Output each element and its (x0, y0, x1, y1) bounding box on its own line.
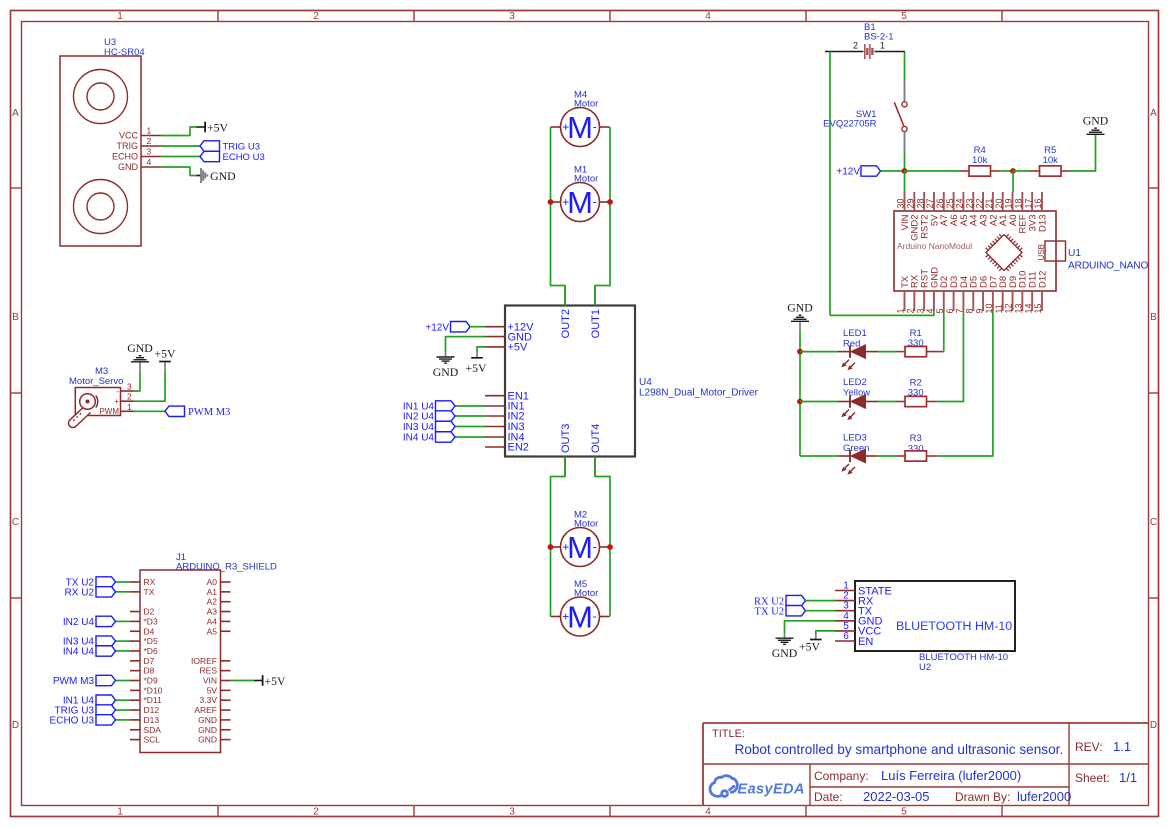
pin 2 M3 (114, 392, 133, 406)
svg-text:ECHO U3: ECHO U3 (50, 715, 95, 726)
wire (878, 455, 897, 457)
svg-text:Date:: Date: (814, 790, 843, 804)
title text (712, 728, 1063, 757)
pin IN1 U4 (485, 401, 525, 413)
wire (785, 621, 836, 633)
svg-text:A3: A3 (207, 607, 218, 617)
svg-text:19: 19 (1004, 198, 1014, 208)
pin 30 VIN U1 (896, 192, 911, 230)
label B1 BS-2-1 (864, 22, 894, 43)
pin 3 ECHO U3 (112, 147, 161, 162)
svg-text:R3: R3 (910, 433, 922, 444)
wire (905, 170, 960, 172)
net flag PWM M3 (53, 675, 116, 687)
power +5V (197, 120, 229, 134)
wire (134, 372, 166, 402)
wire (115, 640, 130, 642)
pin D7 J1 left (130, 656, 155, 666)
net flag IN3 U4 (63, 636, 116, 648)
pin RES J1 right (200, 666, 231, 676)
pin +12V U4 (485, 321, 534, 333)
svg-text:OUT3: OUT3 (560, 424, 572, 453)
svg-text:-: - (593, 120, 597, 134)
wire (115, 699, 130, 701)
net flag IN2 U4 (63, 616, 116, 628)
svg-text:5: 5 (901, 11, 907, 22)
svg-text:U4: U4 (639, 377, 652, 388)
wire (1012, 171, 1014, 192)
wire (800, 351, 838, 353)
pin 8 D5 U1 (964, 276, 979, 314)
pin SCL J1 left (130, 735, 160, 745)
pin D4 J1 left (130, 626, 155, 636)
svg-text:+: + (562, 120, 569, 134)
svg-text:+5V: +5V (465, 361, 487, 375)
svg-text:2: 2 (313, 11, 319, 22)
pin A5 J1 right (207, 626, 231, 636)
svg-text:IN4 U4: IN4 U4 (63, 646, 95, 657)
svg-text:+5V: +5V (508, 342, 529, 354)
svg-text:GND: GND (210, 169, 236, 183)
svg-text:M: M (567, 110, 593, 145)
svg-text:A1: A1 (207, 587, 218, 597)
led LED3 (838, 449, 878, 475)
svg-text:U1: U1 (1068, 248, 1081, 259)
svg-text:-: - (593, 540, 597, 554)
pin 6 D3 U1 (945, 276, 960, 314)
svg-text:D2: D2 (144, 607, 155, 617)
svg-text:EasyEDA: EasyEDA (738, 782, 805, 798)
svg-text:BS-2-1: BS-2-1 (864, 32, 894, 43)
label J1 ARDUINO_R3_SHIELD (176, 552, 277, 573)
power +5V (154, 347, 176, 372)
switch SW1 (894, 82, 907, 152)
label LED2 Yellow (843, 377, 870, 399)
svg-text:2022-03-05: 2022-03-05 (863, 789, 930, 804)
net flag IN1 U4 (403, 401, 455, 413)
svg-text:2: 2 (147, 136, 152, 146)
wire (830, 311, 934, 315)
pin *D6 J1 left (130, 646, 158, 656)
svg-text:BLUETOOTH HM-10: BLUETOOTH HM-10 (896, 619, 1012, 633)
svg-text:+: + (562, 610, 569, 624)
wire (161, 127, 197, 136)
label M3 Motor_Servo (69, 366, 123, 387)
ground (127, 341, 153, 372)
svg-text:1.1: 1.1 (1113, 739, 1131, 754)
svg-text:+5V: +5V (207, 120, 229, 134)
svg-text:Company:: Company: (814, 769, 869, 783)
svg-text:Sheet:: Sheet: (1075, 771, 1110, 785)
svg-text:12: 12 (1004, 303, 1014, 313)
pin 12 D9 U1 (1004, 276, 1019, 314)
net flag ECHO U3 (50, 715, 116, 727)
junction dot (607, 199, 613, 205)
svg-text:IOREF: IOREF (191, 656, 217, 666)
svg-text:8: 8 (964, 308, 974, 313)
svg-text:*D5: *D5 (144, 636, 158, 646)
svg-text:ECHO U3: ECHO U3 (223, 152, 265, 163)
svg-text:1/1: 1/1 (1119, 770, 1137, 785)
svg-text:6: 6 (945, 308, 955, 313)
svg-text:5V: 5V (207, 685, 218, 695)
svg-text:3: 3 (509, 11, 515, 22)
pin 4 GND U1 (925, 267, 940, 314)
svg-text:ARDUINO_NANO: ARDUINO_NANO (1068, 261, 1149, 272)
svg-text:30: 30 (896, 198, 906, 208)
svg-text:A5: A5 (207, 626, 218, 636)
svg-text:Luís Ferreira (lufer2000): Luís Ferreira (lufer2000) (881, 768, 1021, 783)
svg-text:M: M (567, 530, 593, 565)
wire (904, 171, 906, 192)
pin D13 J1 left (130, 715, 159, 725)
label U1 ARDUINO_NANO (1068, 248, 1149, 272)
wire (455, 415, 485, 417)
pin OUT4 U4 (590, 424, 602, 477)
svg-text:IN4 U4: IN4 U4 (403, 433, 435, 444)
svg-text:A0: A0 (207, 577, 218, 587)
pin *D5 J1 left (130, 636, 158, 646)
ground (787, 300, 813, 331)
svg-text:BLUETOOTH HM-10: BLUETOOTH HM-10 (919, 652, 1008, 663)
svg-text:D12: D12 (144, 705, 160, 715)
pin 4 GND U3 (118, 157, 161, 172)
svg-text:3: 3 (509, 806, 515, 817)
svg-text:+12V: +12V (836, 167, 860, 178)
net flag TX U2 (755, 606, 806, 618)
title block frame (703, 723, 1149, 806)
svg-text:GND: GND (433, 365, 459, 379)
svg-text:Motor_Servo: Motor_Servo (69, 376, 123, 387)
svg-text:TX U2: TX U2 (755, 606, 784, 617)
svg-text:11: 11 (994, 304, 1004, 313)
svg-text:lufer2000: lufer2000 (1017, 789, 1071, 804)
svg-text:Robot controlled by smartphone: Robot controlled by smartphone and ultra… (735, 742, 1064, 757)
svg-text:IN2 U4: IN2 U4 (63, 617, 95, 628)
pin RX J1 left (130, 577, 156, 587)
svg-text:M: M (567, 185, 593, 220)
svg-text:18: 18 (1014, 198, 1024, 208)
pin 22 A3 U1 (974, 192, 989, 226)
net flag ECHO U3 (200, 151, 265, 163)
resistor R4 (960, 166, 1000, 176)
svg-text:EN2: EN2 (508, 442, 529, 454)
pin +5V U4 (485, 342, 528, 354)
ground (1083, 113, 1109, 137)
power +5V (799, 634, 822, 654)
svg-text:23: 23 (964, 198, 974, 208)
wire (161, 156, 200, 158)
pin 21 A2 U1 (984, 192, 999, 226)
wire (115, 719, 130, 721)
wire (115, 680, 130, 682)
svg-text:PWM M3: PWM M3 (188, 407, 230, 418)
pin 15 D12 U1 (1033, 271, 1048, 314)
svg-text:B: B (12, 312, 19, 323)
resistor R3 (897, 451, 938, 461)
svg-text:26: 26 (935, 198, 945, 208)
svg-text:U2: U2 (919, 662, 931, 673)
svg-text:5: 5 (901, 806, 907, 817)
led LED2 (838, 395, 878, 421)
net flag TRIG U3 (55, 705, 116, 717)
wire (115, 581, 130, 583)
rev (1075, 739, 1131, 754)
pin 14 D11 U1 (1023, 271, 1038, 313)
pin 3.3V J1 right (200, 695, 231, 705)
svg-text:C: C (12, 517, 19, 528)
svg-text:6: 6 (843, 631, 849, 642)
svg-text:17: 17 (1023, 198, 1033, 208)
wire (806, 610, 836, 612)
pin 1 STATE U2 (835, 581, 892, 598)
svg-text:4: 4 (705, 11, 711, 22)
svg-text:4: 4 (147, 157, 152, 167)
wire (134, 410, 166, 412)
svg-text:+: + (562, 540, 569, 554)
battery B1 (825, 41, 905, 60)
wire (937, 311, 993, 456)
svg-text:GND: GND (198, 715, 217, 725)
label M2 Motor (574, 510, 598, 530)
pin 6 EN U2 (835, 631, 873, 648)
pin 27 5V U1 (925, 192, 940, 226)
svg-text:C: C (1150, 517, 1157, 528)
svg-text:GND: GND (198, 725, 217, 735)
svg-text:3: 3 (127, 382, 132, 392)
svg-text:2: 2 (313, 806, 319, 817)
pin GND J1 right (198, 715, 230, 725)
pin USB U1 (1037, 241, 1066, 261)
svg-text:GND: GND (787, 300, 813, 314)
ground (197, 168, 237, 183)
svg-text:RX U2: RX U2 (65, 587, 95, 598)
svg-text:+5V: +5V (154, 347, 176, 361)
svg-text:D4: D4 (144, 626, 155, 636)
wire (231, 680, 255, 682)
svg-text:24: 24 (955, 198, 965, 208)
servo M3 body (68, 388, 120, 428)
wire (161, 145, 200, 147)
svg-text:GND: GND (127, 341, 153, 355)
pin 3 M3 (116, 382, 133, 396)
label U4 L298N_Dual_Motor_Driver (639, 377, 759, 399)
svg-text:-: - (593, 195, 597, 209)
svg-text:GND: GND (198, 735, 217, 745)
pin 18 REF U1 (1014, 192, 1029, 234)
net flag IN1 U4 (63, 695, 116, 707)
svg-text:1: 1 (896, 308, 906, 313)
wire (816, 631, 835, 634)
wire (551, 127, 566, 306)
connector U3 HC-SR04 body (60, 56, 141, 246)
net flag PWM M3 (165, 406, 230, 418)
svg-text:20: 20 (994, 198, 1004, 208)
svg-text:15: 15 (1033, 303, 1043, 313)
svg-text:M: M (567, 600, 593, 635)
wire (134, 372, 141, 392)
net flag IN3 U4 (403, 421, 455, 433)
svg-text:EN: EN (858, 636, 873, 648)
pin 16 D13 U1 (1033, 192, 1048, 232)
pin 23 A4 U1 (964, 192, 979, 226)
svg-text:16: 16 (1033, 198, 1043, 208)
svg-text:TX: TX (144, 587, 155, 597)
svg-text:1: 1 (117, 11, 123, 22)
label R1 330 (908, 328, 924, 349)
net flag IN2 U4 (403, 411, 455, 423)
svg-text:VCC: VCC (119, 131, 139, 141)
svg-text:GND: GND (118, 162, 139, 172)
label BLUETOOTH HM-10 U2 (919, 652, 1008, 673)
led LED1 (838, 345, 878, 371)
pin 3 RST U1 (915, 269, 930, 314)
svg-text:Drawn By:: Drawn By: (955, 790, 1010, 804)
svg-text:VIN: VIN (203, 676, 217, 686)
net flag IN4 U4 (63, 646, 116, 658)
pin 29 GND2 U1 (906, 192, 921, 241)
svg-text:14: 14 (1023, 303, 1033, 313)
wire (115, 709, 130, 711)
pin TX J1 left (130, 587, 155, 597)
wire (829, 52, 831, 316)
junction dot (607, 544, 613, 550)
svg-text:OUT4: OUT4 (590, 424, 602, 453)
net flag TX U2 (66, 577, 116, 589)
wire (455, 436, 485, 438)
wire (1000, 170, 1014, 172)
svg-text:D13: D13 (144, 715, 160, 725)
wire (446, 337, 486, 352)
motor M4 (551, 108, 610, 147)
wire (800, 401, 838, 403)
junction dot (902, 168, 908, 174)
svg-text:RES: RES (200, 666, 218, 676)
svg-text:27: 27 (925, 198, 935, 208)
label R2 330 (908, 378, 924, 399)
svg-text:4: 4 (705, 806, 711, 817)
wire (1013, 170, 1030, 172)
label M4 Motor (574, 90, 598, 110)
pin 26 A7 U1 (935, 192, 950, 226)
pin 11 D8 U1 (994, 276, 1009, 314)
pin A1 J1 right (207, 587, 231, 597)
pin 17 3V3 U1 (1023, 192, 1038, 231)
pin AREF J1 right (194, 705, 230, 715)
svg-text:-: - (116, 387, 119, 396)
chip U1 QFP symbol (986, 234, 1023, 271)
svg-text:3: 3 (915, 308, 925, 313)
svg-text:GND: GND (772, 646, 798, 660)
pin GND J1 right (198, 725, 230, 735)
wire (943, 311, 945, 352)
wire (161, 167, 197, 176)
svg-text:A2: A2 (207, 597, 218, 607)
net flag IN4 U4 (403, 432, 455, 444)
pin A0 J1 right (207, 577, 231, 587)
svg-text:A: A (1150, 108, 1157, 119)
pin 1 TX U1 (896, 275, 911, 313)
pin 1 M3 (99, 402, 133, 416)
svg-text:OUT2: OUT2 (560, 309, 572, 338)
svg-text:PWM M3: PWM M3 (53, 676, 95, 687)
svg-text:D: D (1150, 720, 1157, 731)
pin 7 D4 U1 (955, 276, 970, 314)
svg-text:*D3: *D3 (144, 616, 158, 626)
svg-text:2: 2 (127, 392, 132, 402)
svg-text:2: 2 (906, 308, 916, 313)
power +5V (465, 352, 487, 375)
pin EN2 U4 (485, 442, 529, 454)
svg-text:*D11: *D11 (144, 695, 163, 705)
wire (115, 650, 130, 652)
junction dot (797, 349, 803, 355)
motor M2 (551, 528, 610, 567)
junction dot (548, 544, 554, 550)
pin A2 J1 right (207, 597, 231, 607)
net flag TRIG U3 (200, 141, 260, 153)
svg-text:D: D (12, 720, 19, 731)
pin 2 TRIG U3 (117, 136, 162, 151)
svg-text:10k: 10k (972, 155, 988, 166)
pin IN2 U4 (485, 411, 525, 423)
svg-text:A4: A4 (207, 616, 218, 626)
svg-text:10k: 10k (1043, 155, 1059, 166)
wire (937, 311, 963, 402)
pin 19 A0 U1 (1004, 192, 1019, 226)
svg-text:L298N_Dual_Motor_Driver: L298N_Dual_Motor_Driver (639, 388, 759, 399)
svg-text:IN2 U4: IN2 U4 (403, 412, 435, 423)
resistor R1 (897, 346, 944, 356)
pin IOREF J1 right (191, 656, 230, 666)
pin 13 D10 U1 (1014, 271, 1029, 314)
company (814, 768, 1021, 783)
pin 28 RST2 U1 (915, 192, 930, 239)
EasyEDA logo (710, 776, 805, 798)
svg-text:USB: USB (1037, 244, 1046, 260)
pin 5 VCC U2 (835, 621, 881, 638)
svg-text:LED1: LED1 (843, 328, 867, 339)
svg-text:Arduino NanoModul: Arduino NanoModul (897, 241, 972, 251)
svg-text:*D10: *D10 (144, 685, 163, 695)
ground (772, 633, 798, 660)
pin OUT2 U4 (560, 286, 572, 339)
svg-text:1: 1 (117, 806, 123, 817)
wire (595, 127, 610, 306)
pin 25 A6 U1 (945, 192, 960, 226)
svg-text:TRIG U3: TRIG U3 (223, 142, 260, 153)
svg-text:ECHO: ECHO (112, 152, 138, 162)
pin VIN J1 right (203, 676, 231, 686)
pin *D10 J1 left (130, 685, 163, 695)
svg-text:29: 29 (906, 198, 916, 208)
svg-text:22: 22 (974, 198, 984, 208)
pin 24 A5 U1 (955, 192, 970, 226)
wire (455, 426, 485, 428)
pin *D3 J1 left (130, 616, 158, 626)
pin A3 J1 right (207, 607, 231, 617)
svg-text:21: 21 (984, 198, 994, 208)
pin GND U4 (485, 331, 532, 343)
svg-text:-: - (593, 609, 597, 623)
svg-text:GND: GND (1083, 113, 1109, 127)
pin 2 RX U1 (906, 274, 921, 313)
pin 9 D6 U1 (974, 276, 989, 314)
pin D8 J1 left (130, 666, 155, 676)
pin EN1 U4 (485, 390, 529, 402)
label LED1 Red (843, 328, 867, 350)
label R5 10k (1043, 145, 1059, 166)
